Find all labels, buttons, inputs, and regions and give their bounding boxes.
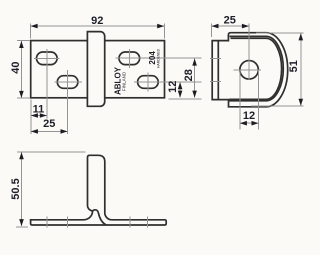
- plate right face side view: [217, 41, 219, 100]
- plate outline front view: [31, 41, 165, 98]
- svg-text:FINLAND: FINLAND: [121, 71, 126, 91]
- dimension 11: [31, 100, 47, 134]
- svg-text:12: 12: [243, 110, 255, 122]
- svg-text:HARDENED: HARDENED: [156, 48, 160, 68]
- svg-text:51: 51: [288, 60, 300, 72]
- svg-text:11: 11: [33, 103, 45, 115]
- svg-text:50.5: 50.5: [10, 178, 22, 199]
- dimension 50.5: [16, 152, 86, 227]
- dimension 51: [251, 33, 303, 106]
- dimension 12 side: [240, 70, 259, 130]
- hole 4 crosshair: [134, 73, 202, 92]
- profile silhouette: [31, 155, 167, 225]
- svg-text:12: 12: [167, 81, 179, 93]
- hole ticks on plate edge: [210, 58, 221, 81]
- svg-text:40: 40: [10, 61, 22, 73]
- strap inner edge line 1: [229, 36, 284, 100]
- slot hole 1: [37, 52, 58, 65]
- svg-text:25: 25: [224, 15, 236, 27]
- slot hole 4: [138, 76, 159, 89]
- hole 3 crosshair: [115, 49, 201, 68]
- dimension 12 front: [179, 82, 181, 98]
- bottom extension line front: [168, 98, 201, 100]
- dimension 25 side: [211, 24, 249, 38]
- svg-text:25: 25: [43, 118, 55, 130]
- dimension 28: [194, 59, 196, 98]
- hole 1 crosshair: [34, 49, 60, 119]
- circle center line vertical: [248, 23, 250, 80]
- slot hole 2: [57, 76, 78, 89]
- strap inner edge line 2: [229, 38, 281, 99]
- dimension 25 front: [31, 130, 68, 132]
- strap D silhouette: [212, 33, 288, 107]
- shackle hole circle: [240, 61, 259, 80]
- hole 2 crosshair: [54, 70, 82, 134]
- dimension 40: [17, 41, 30, 98]
- svg-text:92: 92: [91, 15, 103, 27]
- hole tick marks on base: [47, 216, 148, 227]
- slot hole 3: [119, 52, 140, 65]
- strap inner bend edge: [93, 210, 106, 225]
- circle center line horizontal: [234, 69, 262, 71]
- dimension 92: [30, 24, 164, 39]
- center strap strip front view: [87, 32, 104, 107]
- svg-text:28: 28: [183, 69, 195, 81]
